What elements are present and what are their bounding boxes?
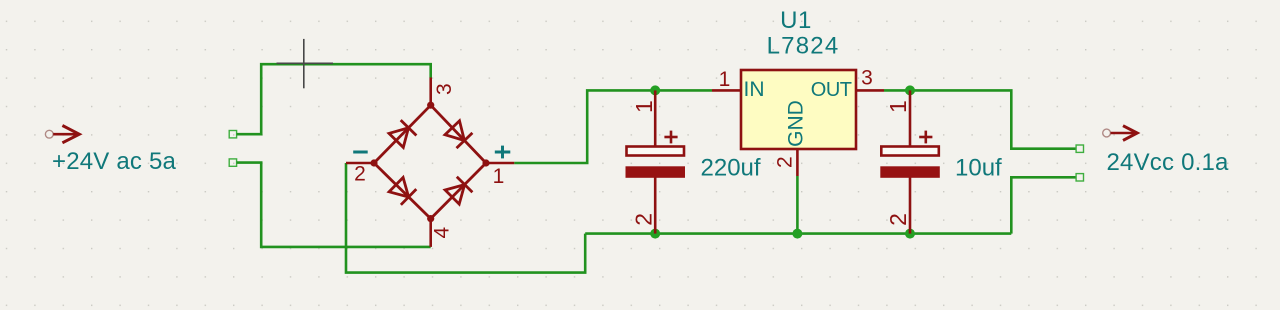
node dot 3: [427, 102, 434, 109]
svg-text:GND: GND: [785, 100, 808, 147]
junction dot bottom bus at GND: [792, 229, 802, 239]
U1 pin 1 stub: [712, 89, 741, 92]
svg-text:+24V ac 5a: +24V ac 5a: [52, 148, 177, 175]
C1 plus mark: [664, 131, 677, 144]
svg-text:2: 2: [630, 213, 656, 226]
svg-text:24Vcc 0.1a: 24Vcc 0.1a: [1107, 149, 1230, 176]
svg-text:3: 3: [861, 67, 873, 90]
C2 top plate: [881, 147, 939, 156]
svg-text:220uf: 220uf: [701, 155, 761, 182]
C1 bottom plate: [626, 166, 686, 178]
C2 bottom lead: [909, 177, 912, 234]
node dot 4: [427, 215, 434, 222]
C2 bottom plate: [880, 166, 940, 178]
wire: left top connector to bridge pin 3: [237, 64, 431, 134]
pin 2 stub: [346, 162, 374, 165]
polarity plus: [495, 146, 511, 159]
pin 3 stub: [429, 78, 432, 106]
svg-text:2: 2: [885, 213, 911, 226]
node dot 2: [370, 159, 377, 166]
wire: bottom bus up to output bottom: [1011, 177, 1076, 233]
power output port arrow: [1103, 126, 1138, 141]
capacitor C2 10uf: [880, 90, 1002, 233]
pin 1 stub: [486, 162, 514, 165]
power input port arrow: [45, 126, 79, 143]
unconnected pin square left top: [229, 131, 236, 138]
svg-text:4: 4: [430, 227, 453, 239]
C1 bottom lead: [654, 177, 657, 234]
svg-text:1: 1: [631, 100, 657, 113]
pin 4 stub: [429, 219, 432, 247]
cursor crosshair: [277, 39, 334, 88]
C1 top lead: [654, 90, 657, 146]
wire: bridge pin 1 to top bus into U1 pin 1: [514, 90, 712, 163]
svg-text:L7824: L7824: [767, 33, 840, 60]
svg-text:1: 1: [493, 165, 505, 188]
svg-text:1: 1: [885, 100, 911, 113]
C1 top plate: [627, 147, 685, 156]
diode D lower-right (4 to 1): [445, 177, 472, 204]
U1 pin 2 stub: [796, 149, 799, 176]
svg-text:2: 2: [774, 156, 797, 168]
wire: U1 pin 3 to right side down to output top: [884, 90, 1076, 148]
diamond edges: [374, 105, 486, 218]
diode D lower-left (2 to 4): [389, 178, 416, 205]
wire: left bottom connector to bridge pin 4: [237, 163, 431, 247]
svg-text:1: 1: [719, 68, 731, 91]
svg-text:OUT: OUT: [811, 79, 852, 101]
junction dot top bus at C2: [905, 85, 915, 95]
C2 plus mark: [919, 131, 932, 144]
wire: bottom bus: [585, 232, 1011, 235]
C2 top lead: [909, 90, 912, 146]
diode D upper-right (3 to 1): [445, 121, 472, 148]
junction dot bottom bus at C2: [905, 229, 915, 239]
svg-text:10uf: 10uf: [955, 155, 1002, 182]
svg-text:2: 2: [354, 163, 366, 186]
diode D upper-left (2 to 3): [389, 120, 416, 147]
polarity minus: [353, 151, 368, 154]
svg-text:U1: U1: [780, 7, 812, 34]
unconnected pin square right top: [1076, 145, 1083, 152]
junction dot top bus at C1: [650, 85, 660, 95]
unconnected pin square left bottom: [229, 159, 236, 166]
wire: U1 GND pin to bottom bus: [796, 176, 799, 234]
U1 body: [741, 70, 856, 149]
junction dot bottom bus at C1: [650, 229, 660, 239]
bridge rectifier: [346, 78, 514, 247]
svg-text:IN: IN: [744, 78, 765, 101]
wire: bridge pin 2 down and around to bottom bus: [346, 163, 585, 273]
regulator U1 L7824: [712, 7, 884, 176]
unconnected pin square right bottom: [1076, 174, 1083, 181]
svg-text:3: 3: [433, 83, 456, 95]
capacitor C1 220uf: [626, 90, 761, 233]
U1 pin 3 stub: [856, 89, 884, 92]
node dot 1: [482, 159, 489, 166]
